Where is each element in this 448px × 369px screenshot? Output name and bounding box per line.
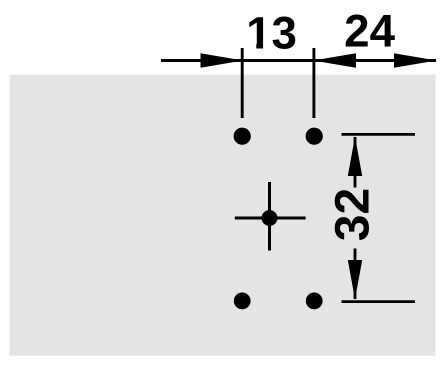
arrowhead pointing down at bottom reference line: [348, 260, 362, 300]
arrowhead pointing right at tick 1: [201, 53, 244, 67]
wire: top reference line (32 dim): [342, 133, 416, 136]
arrowhead pointing up at top reference line: [348, 137, 362, 177]
wire: vertical dimension line lower stub: [354, 249, 357, 300]
node center dot: [262, 210, 278, 226]
hole bottom-left: [234, 293, 251, 310]
panel (gray board): [10, 75, 436, 356]
node tick at x=242 (extension line, hole column 1): [241, 48, 244, 118]
svg-text:24: 24: [344, 5, 395, 56]
wire: top dimension line: [161, 59, 436, 62]
wire: vertical dimension line upper stub: [354, 137, 357, 188]
wire: cross vertical arm: [268, 182, 271, 251]
wire: bottom reference line (32 dim): [342, 300, 416, 303]
wire: cross horizontal arm: [235, 217, 306, 220]
hole bottom-right: [306, 293, 323, 310]
node tick at x=314 (extension line, hole column 2): [312, 48, 315, 118]
svg-text:32: 32: [327, 188, 380, 241]
hole top-right: [306, 128, 323, 145]
arrowhead pointing right at panel edge: [394, 53, 437, 67]
arrowhead pointing left at tick 2: [313, 53, 356, 67]
svg-text:13: 13: [246, 7, 297, 58]
hole top-left: [234, 128, 251, 145]
